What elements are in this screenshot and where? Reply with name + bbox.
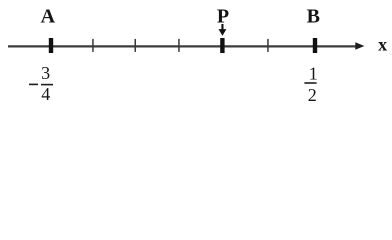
thin tick 3 bbox=[178, 39, 180, 52]
thick tick B bbox=[313, 38, 317, 53]
down arrow pointing at P: shaft bbox=[221, 24, 223, 31]
svg-text:2: 2 bbox=[308, 85, 317, 105]
svg-text:x: x bbox=[378, 35, 387, 55]
right arrowhead of number line bbox=[355, 42, 364, 50]
down arrow pointing at P: head bbox=[219, 29, 227, 36]
svg-text:A: A bbox=[41, 5, 56, 27]
thin tick 4 bbox=[267, 39, 269, 52]
thin tick 2 bbox=[135, 39, 137, 52]
svg-text:1: 1 bbox=[309, 64, 318, 84]
fraction bar of 1/2 bbox=[304, 82, 316, 84]
minus sign of -3/4 bbox=[29, 84, 38, 86]
fraction bar of 3/4 bbox=[41, 84, 53, 86]
number line bbox=[8, 45, 356, 47]
svg-text:3: 3 bbox=[41, 63, 50, 83]
thick tick A bbox=[49, 38, 53, 53]
thin tick 1 bbox=[92, 39, 94, 52]
svg-text:4: 4 bbox=[41, 84, 50, 104]
thick tick P bbox=[220, 38, 224, 53]
svg-text:B: B bbox=[307, 5, 320, 27]
